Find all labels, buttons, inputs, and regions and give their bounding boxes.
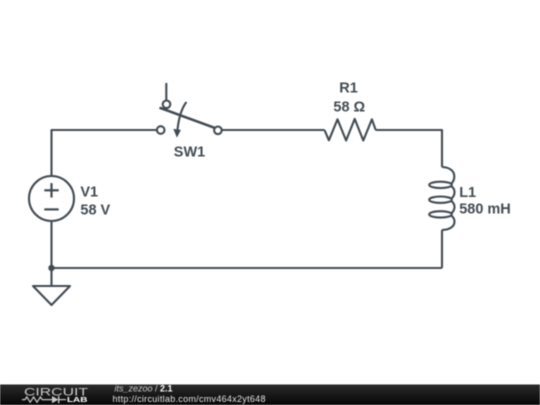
V1 minus sign [44,208,58,210]
wire switch to resistor [223,129,325,131]
svg-text:580 mH: 580 mH [459,202,511,218]
V1 source circle [29,176,74,221]
switch blade [160,108,215,128]
svg-text:R1: R1 [339,81,358,97]
switch terminal right [214,127,222,135]
switch terminal left [157,126,165,134]
svg-text:58 V: 58 V [80,203,110,219]
svg-text:58 Ω: 58 Ω [333,99,365,115]
svg-text:its_zezoo / 2.1: its_zezoo / 2.1 [115,383,173,393]
svg-text:L1: L1 [459,185,476,201]
switch arrow head [173,129,181,138]
resistor R1 [325,119,376,141]
svg-text:SW1: SW1 [174,145,205,161]
junction dot [48,265,54,271]
switch arrow [177,102,186,134]
inductor L1 [442,167,454,184]
wire ground riser to V1 [50,221,52,268]
switch terminal top [163,101,171,109]
logo resistor zigzag [22,397,52,402]
ground triangle [33,286,70,305]
wire bottom horizontal [52,267,443,269]
svg-text:LAB: LAB [67,397,87,404]
V1 plus sign [44,189,58,191]
ground stem [50,268,52,286]
logo diode [52,396,59,403]
wire inductor to bottom [441,230,443,268]
switch SW1 stub [165,83,167,100]
svg-text:V1: V1 [80,184,98,200]
wire resistor to corner and down [376,130,442,167]
svg-text:http://circuitlab.com/cmv464x2: http://circuitlab.com/cmv464x2yt648 [113,394,266,404]
wire top-left horizontal [52,130,157,176]
